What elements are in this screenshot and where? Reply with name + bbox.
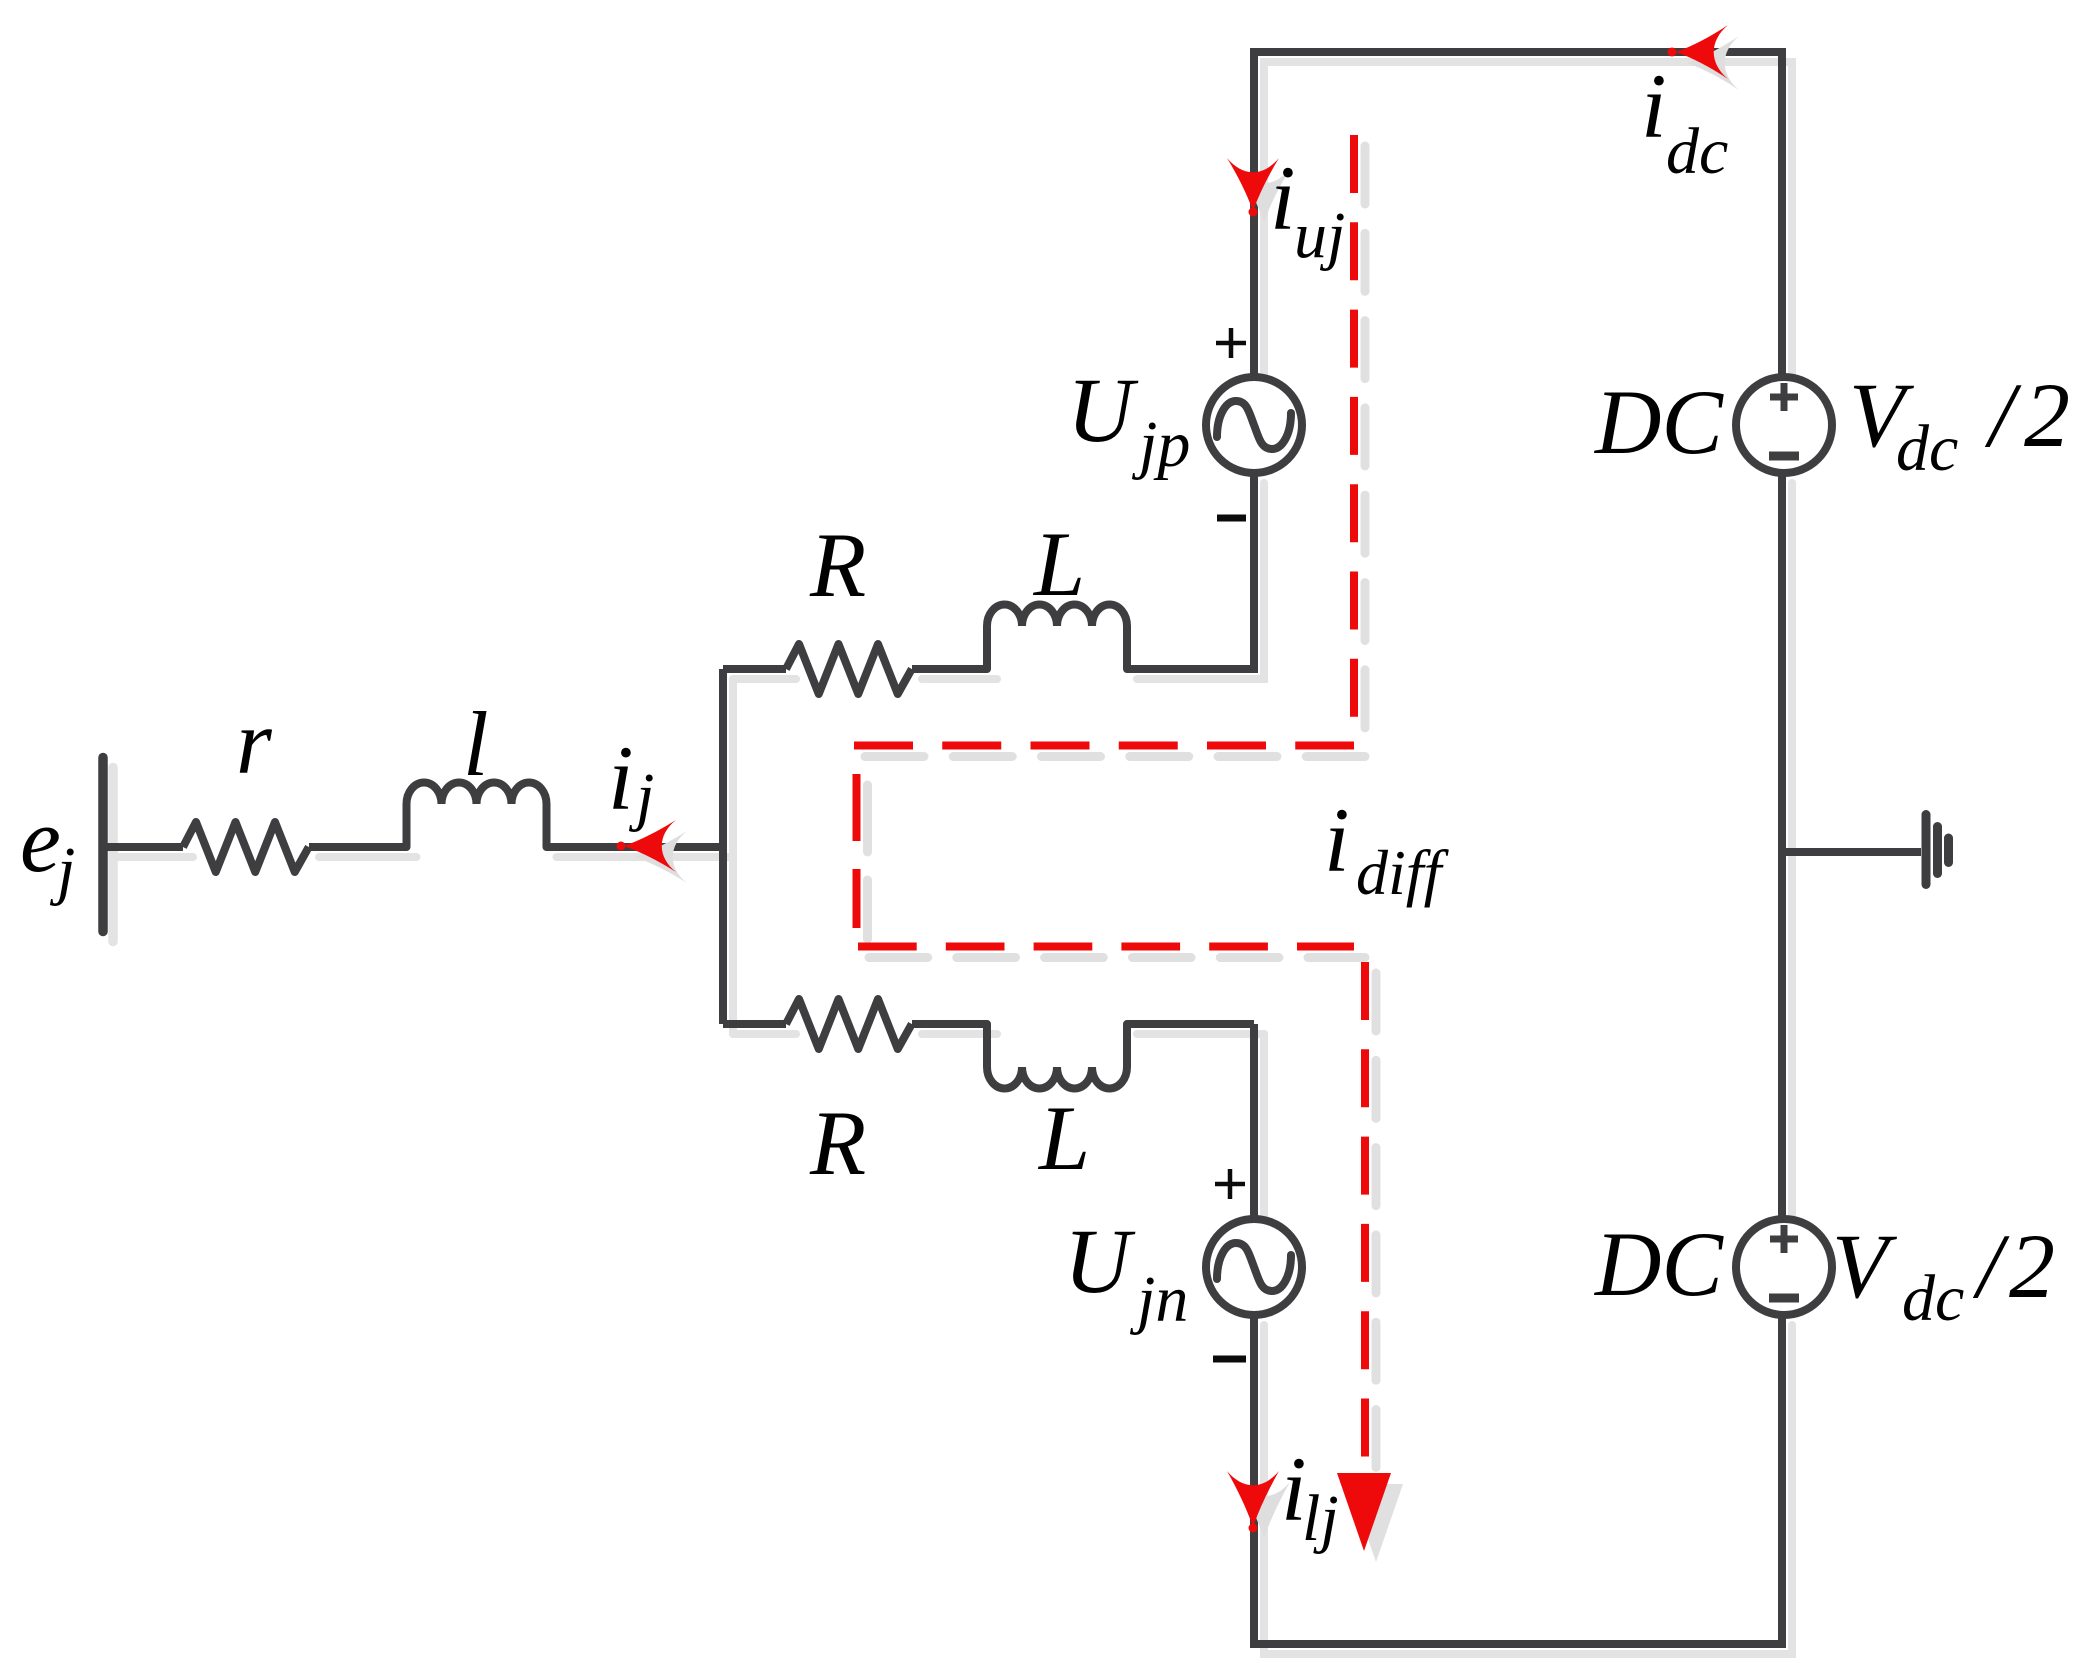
dc source upper circle (1736, 377, 1832, 473)
svg-text:DC: DC (1593, 371, 1724, 473)
wire r to l (309, 843, 407, 851)
wire upper arm left (723, 665, 786, 673)
svg-text:dc: dc (1902, 1262, 1964, 1335)
arrow iuj (1227, 158, 1279, 217)
svg-text:/: / (1984, 364, 2022, 466)
inductor L lower (987, 1024, 1127, 1089)
ac source U jn circle (1206, 1219, 1302, 1315)
resistor R upper (786, 644, 912, 694)
svg-text:lj: lj (1302, 1482, 1339, 1555)
wire Ujp to top dc bus (1254, 52, 1782, 377)
svg-text:i: i (1324, 789, 1350, 891)
node ej terminal bar (98, 758, 108, 932)
svg-text:l: l (463, 693, 489, 795)
wire Ujn to lower arm (1250, 1024, 1258, 1219)
Ujp minus (1217, 515, 1246, 522)
junction vertical wire (719, 669, 727, 1024)
svg-text:r: r (236, 691, 273, 793)
idiff dashed path shadow (865, 146, 1376, 1473)
idiff big arrow (1337, 1473, 1391, 1551)
dc source upper plus (1770, 383, 1798, 411)
Ujp plus (1216, 328, 1246, 358)
wire shadows (113, 62, 1792, 1654)
svg-text:/: / (1972, 1215, 2010, 1317)
dc source lower minus (1769, 1294, 1799, 1303)
wire: ej terminal to resistor r (103, 843, 183, 851)
wire lower arm left (723, 1020, 786, 1028)
wire lower arm right (1127, 1020, 1254, 1028)
resistor r (183, 822, 309, 872)
svg-text:V: V (1832, 1215, 1898, 1317)
Ujn plus (1215, 1169, 1245, 1199)
svg-text:diff: diff (1356, 837, 1450, 908)
svg-text:U: U (1067, 359, 1139, 461)
wire upper arm right to Ujp (1127, 473, 1254, 669)
ground (1926, 815, 1949, 885)
inductor l (407, 783, 547, 848)
svg-text:i: i (1270, 147, 1296, 249)
inductor L upper (987, 605, 1127, 670)
dc source upper minus (1769, 452, 1799, 461)
ac source U jp circle (1206, 377, 1302, 473)
svg-text:R: R (809, 514, 866, 616)
svg-text:2: 2 (2024, 364, 2070, 466)
svg-text:L: L (1032, 513, 1085, 615)
svg-text:R: R (809, 1092, 866, 1194)
svg-text:L: L (1037, 1087, 1090, 1189)
wire l to junction node (547, 843, 724, 851)
wire upper arm mid (912, 665, 987, 673)
svg-text:i: i (608, 727, 634, 829)
svg-text:e: e (20, 789, 61, 891)
svg-text:jn: jn (1129, 1263, 1188, 1336)
dc source lower plus (1770, 1225, 1798, 1253)
idiff dashed circulating current path (854, 135, 1365, 1462)
dc source lower circle (1736, 1219, 1832, 1315)
svg-text:DC: DC (1593, 1213, 1724, 1315)
arrow ij (617, 820, 677, 872)
svg-text:dc: dc (1896, 412, 1958, 485)
wire bottom bus (1254, 1315, 1782, 1644)
Ujn minus (1213, 1356, 1246, 1363)
wire to ground (1782, 848, 1921, 856)
wire lower arm mid (912, 1020, 987, 1028)
svg-text:U: U (1064, 1210, 1136, 1312)
svg-text:i: i (1641, 55, 1667, 157)
arrow idc (1668, 25, 1729, 79)
arrow shadows (635, 36, 1739, 1538)
resistor R lower (786, 999, 912, 1049)
svg-text:dc: dc (1666, 115, 1728, 188)
ac source U jp sine (1217, 401, 1291, 449)
svg-text:2: 2 (2009, 1215, 2055, 1317)
svg-text:uj: uj (1294, 199, 1345, 272)
idiff big arrow shadow (1349, 1484, 1403, 1562)
svg-text:jp: jp (1131, 408, 1190, 481)
arrow ilj (1227, 1471, 1279, 1533)
ac source U jn sine (1217, 1243, 1291, 1291)
wire right vertical between dc sources (1778, 473, 1786, 1219)
